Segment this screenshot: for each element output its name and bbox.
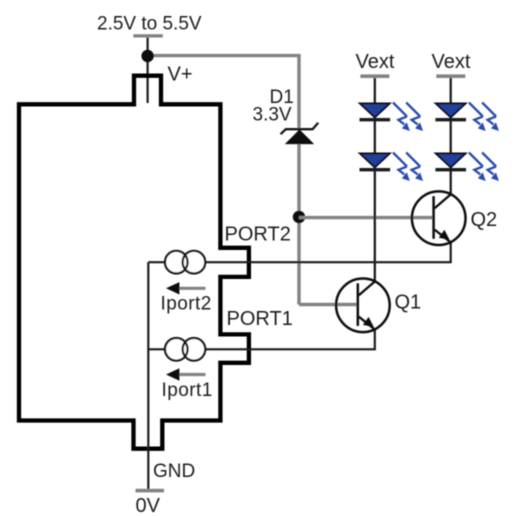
svg-text:Q2: Q2: [471, 209, 498, 231]
svg-text:PORT2: PORT2: [225, 224, 291, 246]
wire Q2 base (gray): [299, 216, 433, 219]
LED D2 string1 top: [360, 103, 391, 121]
svg-text:Vext: Vext: [356, 51, 395, 73]
wire LED string 2 (Vext to Q2 collector): [450, 78, 452, 195]
zener diode D1 3.3V: [281, 123, 319, 144]
current arrow Iport1: [166, 368, 206, 380]
transistor Q2: [412, 191, 466, 245]
svg-text:Vext: Vext: [432, 51, 471, 73]
supply bar Vext right: [436, 74, 465, 78]
interior vertical wire PORT2 rail to GND pin to 0V: [147, 262, 149, 489]
emission arrows LED string1 top: [393, 103, 410, 132]
current source Iport1: [165, 338, 205, 361]
svg-text:PORT1: PORT1: [227, 308, 293, 330]
node (junction dot) at V+: [141, 50, 153, 62]
svg-text:V+: V+: [168, 64, 193, 86]
svg-text:0V: 0V: [136, 495, 161, 516]
wire supply bar to V+ pin: [147, 38, 149, 104]
ground terminal bar 0V: [136, 489, 165, 493]
IC body outline with V+, GND, PORT1, PORT2 pins: [19, 76, 249, 449]
node (junction dot) at zener / PORT2 rail: [293, 211, 305, 223]
svg-text:Iport2: Iport2: [161, 294, 212, 315]
supply bar Vext left: [360, 74, 389, 78]
PORT1 net wire to Q1 emitter: [148, 330, 374, 349]
svg-text:3.3V: 3.3V: [253, 105, 292, 126]
emission arrows LED string2 top: [469, 103, 486, 132]
PORT2 net wire to Q2 emitter: [148, 243, 450, 262]
gray rail wire: node to zener to Q1 base column: [148, 56, 299, 305]
current arrow Iport2: [166, 282, 206, 294]
svg-text:2.5V to 5.5V: 2.5V to 5.5V: [97, 14, 202, 35]
LED D3 string1 bottom: [360, 153, 391, 171]
LED D5 string2 bottom: [435, 153, 466, 171]
current source Iport2: [165, 251, 205, 274]
transistor Q1: [336, 279, 390, 333]
supply terminal bar (top): [133, 34, 162, 37]
emission arrows LED string2 bottom: [469, 153, 486, 182]
LED D4 string2 top: [435, 103, 466, 121]
svg-text:Q1: Q1: [395, 291, 422, 313]
svg-text:GND: GND: [153, 461, 195, 482]
emission arrows LED string1 bottom: [393, 153, 410, 182]
wire Q1 base (gray): [299, 303, 357, 306]
svg-text:Iport1: Iport1: [162, 380, 213, 401]
wire LED string 1 (Vext to Q1 collector): [374, 78, 376, 282]
